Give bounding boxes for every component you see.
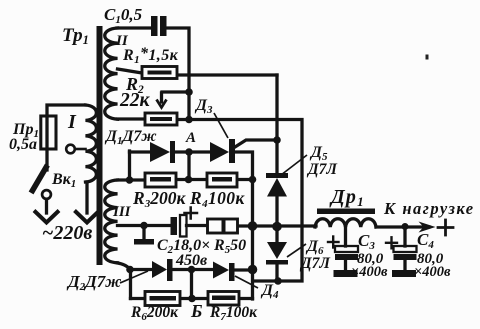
svg-text:Б: Б xyxy=(190,301,202,321)
svg-text:R550: R550 xyxy=(213,237,246,256)
svg-text:R6200к: R6200к xyxy=(130,304,179,323)
svg-text:А: А xyxy=(185,130,196,146)
svg-text:×400в: ×400в xyxy=(414,264,451,280)
svg-text:~220в: ~220в xyxy=(42,222,92,244)
svg-text:450в: 450в xyxy=(175,252,207,269)
svg-text:С10,5: С10,5 xyxy=(104,5,143,26)
svg-text:R7100к: R7100к xyxy=(209,304,258,323)
svg-text:R4100к: R4100к xyxy=(189,188,245,210)
svg-text:III: III xyxy=(112,204,132,220)
svg-text:I: I xyxy=(67,111,77,133)
svg-text:К нагрузке: К нагрузке xyxy=(383,199,475,218)
svg-text:22к: 22к xyxy=(119,90,151,111)
svg-text:R1*1,5к: R1*1,5к xyxy=(122,45,179,66)
svg-text:0,5а: 0,5а xyxy=(9,136,37,153)
svg-text:Д7Л: Д7Л xyxy=(306,161,338,178)
svg-text:Д7Л: Д7Л xyxy=(299,255,331,272)
svg-text:R3200к: R3200к xyxy=(132,188,186,210)
svg-text:Д2Д7ж: Д2Д7ж xyxy=(66,272,121,293)
svg-text:Д1Д7ж: Д1Д7ж xyxy=(104,128,157,147)
svg-text:×400в: ×400в xyxy=(351,264,388,280)
